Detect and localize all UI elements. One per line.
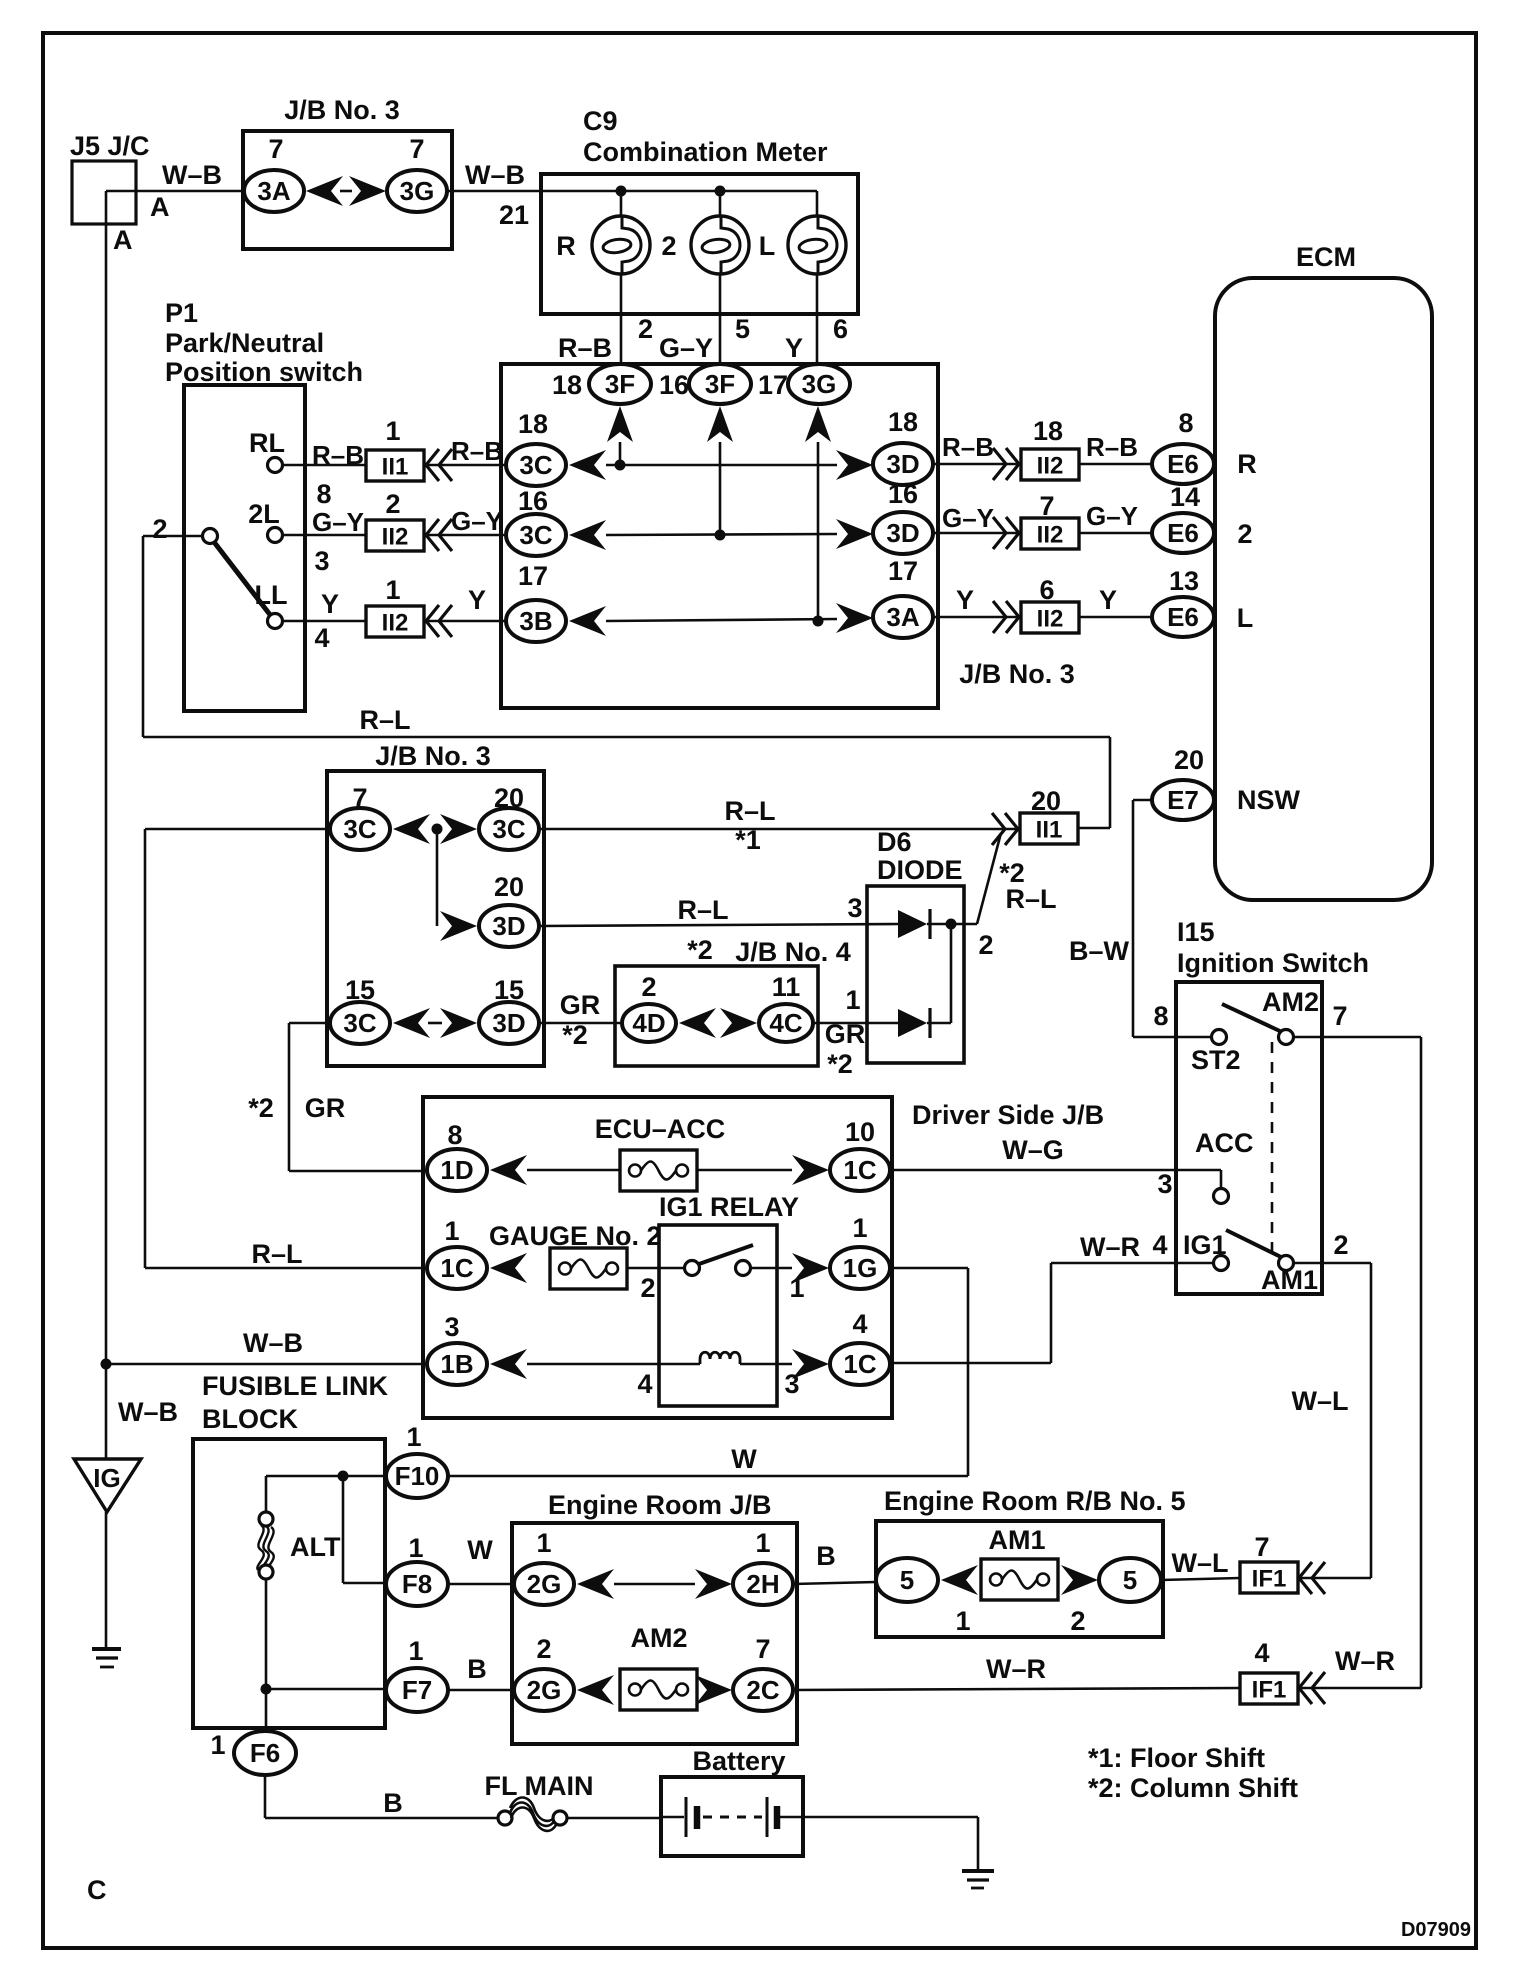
wire R-B to 3C (425, 464, 505, 467)
arrow up to 3G (805, 406, 831, 442)
FL MAIN fusible link wavy (510, 1798, 556, 1831)
connector 3F row 2 (689, 364, 751, 404)
connector II1 R-L (1020, 813, 1078, 844)
svg-text:B: B (467, 1654, 487, 1684)
wire G-Y to 3C (425, 534, 505, 537)
arrow right row1 driver (792, 1155, 829, 1185)
arrow right rowA (440, 814, 477, 844)
svg-text:E6: E6 (1167, 449, 1199, 479)
svg-text:16: 16 (659, 370, 689, 400)
svg-text:10: 10 (845, 1117, 875, 1147)
svg-text:FL MAIN: FL MAIN (485, 1771, 594, 1801)
svg-text:G–Y: G–Y (451, 506, 503, 536)
connector 3G row L (788, 364, 850, 404)
wire W horizontal (447, 1475, 968, 1478)
svg-text:8: 8 (1153, 1001, 1168, 1031)
connector 3F row R (589, 364, 651, 404)
svg-text:LL: LL (255, 580, 288, 610)
IG1 relay box (659, 1225, 777, 1406)
svg-text:7: 7 (755, 1634, 770, 1664)
arrow left row2 driver (490, 1253, 527, 1283)
arrow left rowA (393, 814, 430, 844)
contact AM1 (1279, 1256, 1294, 1271)
svg-text:W: W (731, 1444, 757, 1474)
contact RL (268, 458, 283, 473)
svg-text:1: 1 (845, 985, 860, 1015)
wire 2C to IF1 (793, 1688, 1240, 1690)
connector F7 (386, 1668, 448, 1712)
svg-text:3G: 3G (802, 369, 837, 399)
svg-text:W–B: W–B (162, 160, 222, 190)
contact ACC (1214, 1189, 1229, 1204)
svg-text:W–R: W–R (986, 1654, 1046, 1684)
wire F10 left (266, 1475, 387, 1478)
svg-text:2: 2 (1333, 1230, 1348, 1260)
relay lever (699, 1245, 753, 1264)
svg-text:F6: F6 (250, 1738, 280, 1768)
arrow left RB5 (941, 1565, 978, 1595)
battery cell left plate long (685, 1797, 688, 1837)
svg-text:1: 1 (444, 1216, 459, 1246)
J/B No.3 lower box (327, 771, 544, 1066)
svg-text:C: C (87, 1875, 107, 1905)
svg-text:2C: 2C (746, 1675, 779, 1705)
svg-text:7: 7 (1254, 1532, 1269, 1562)
connector 3C rowA right (479, 808, 539, 850)
arrow left row2 (569, 520, 606, 550)
connector 3D row2 (873, 512, 933, 554)
svg-text:18: 18 (1033, 416, 1063, 446)
svg-text:R–L: R–L (724, 796, 775, 826)
contact common 2 (203, 529, 218, 544)
arrow right row2 driver (792, 1253, 829, 1283)
connector 1C ig (830, 1343, 890, 1385)
wire diode out (951, 923, 977, 926)
wire IF1 row2 to W-R vertical (1298, 1687, 1421, 1690)
wire 3D to II2 row2 (933, 532, 1019, 535)
arrow right row1 engine (695, 1569, 732, 1599)
svg-text:GR: GR (560, 990, 601, 1020)
svg-text:E6: E6 (1167, 518, 1199, 548)
wire W-R to 1C row3 (891, 1362, 1051, 1365)
svg-text:1: 1 (210, 1730, 225, 1760)
svg-text:GR: GR (825, 1019, 866, 1049)
ALT contact bottom (259, 1565, 273, 1579)
svg-text:F8: F8 (402, 1569, 432, 1599)
svg-text:R–L: R–L (677, 895, 728, 925)
chevron IF1 row1 (1299, 1562, 1325, 1594)
connector 1B (427, 1343, 487, 1385)
connector II2 row2 (366, 520, 424, 551)
svg-text:II2: II2 (382, 610, 409, 637)
svg-text:*2: Column Shift: *2: Column Shift (1088, 1773, 1298, 1803)
chevron male row2 (993, 517, 1019, 549)
svg-text:2G: 2G (527, 1675, 562, 1705)
svg-text:AM2: AM2 (630, 1623, 687, 1653)
diode 2 symbol (898, 1009, 927, 1037)
wire fuse to relay (628, 1267, 685, 1270)
svg-text:1: 1 (755, 1528, 770, 1558)
wire fuse to 1C (697, 1169, 792, 1172)
arrow left rowC (393, 1008, 430, 1038)
svg-text:Position switch: Position switch (165, 357, 363, 387)
battery cell wires (661, 1816, 684, 1819)
svg-text:11: 11 (772, 972, 801, 1002)
svg-text:Y: Y (321, 589, 339, 619)
svg-text:W–R: W–R (1080, 1232, 1140, 1262)
svg-text:16: 16 (518, 486, 548, 516)
junction dot row2 (715, 530, 726, 541)
svg-text:3C: 3C (343, 1008, 376, 1038)
svg-text:21: 21 (499, 200, 529, 230)
arrow right row3 driver (792, 1349, 829, 1379)
wire II2 to E6 row1 (1079, 463, 1152, 466)
AM2 lever (1222, 1004, 1282, 1032)
svg-text:Engine Room R/B No. 5: Engine Room R/B No. 5 (884, 1486, 1186, 1516)
svg-text:AM1: AM1 (1261, 1265, 1318, 1295)
svg-text:W–R: W–R (1335, 1646, 1395, 1676)
svg-text:1D: 1D (440, 1155, 473, 1185)
svg-text:1: 1 (852, 1213, 867, 1243)
wire lamp L to pin 6 (816, 274, 819, 365)
relay contact left (685, 1261, 700, 1276)
svg-text:3G: 3G (400, 176, 435, 206)
svg-text:W–L: W–L (1172, 1548, 1229, 1578)
ALT fusible link wavy (257, 1525, 273, 1572)
connector 3C row1 (506, 444, 566, 486)
indicator lamp R (592, 216, 650, 274)
wire Y to 3B (425, 620, 505, 623)
svg-text:3C: 3C (492, 814, 525, 844)
wire R-L to 1C gauge (145, 1267, 426, 1270)
wire W-G from 1C to ACC (891, 1169, 1221, 1172)
connector F10 (386, 1454, 448, 1498)
contact AM2 (1279, 1030, 1294, 1045)
wire to F7 (266, 1688, 386, 1691)
fusible link block box (193, 1439, 385, 1728)
svg-text:W–B: W–B (118, 1397, 178, 1427)
svg-text:Y: Y (468, 585, 486, 615)
svg-text:17: 17 (758, 370, 788, 400)
connector 5 right (1099, 1558, 1161, 1602)
wire AM2 pin7 right (1293, 1036, 1421, 1039)
svg-text:II2: II2 (1037, 606, 1064, 633)
svg-text:4: 4 (852, 1309, 867, 1339)
wire IF1 to W-L vertical (1298, 1577, 1371, 1580)
svg-text:J/B No. 3: J/B No. 3 (375, 741, 491, 771)
wire GR 3D to 4D (539, 1022, 622, 1025)
svg-text:3: 3 (847, 893, 862, 923)
connector 1C gauge (427, 1247, 487, 1289)
wire GR 3C rowC to left (289, 1022, 330, 1025)
wire W-B from 3G to combination meter (447, 190, 817, 193)
svg-text:W: W (467, 1535, 493, 1565)
connector 5 left (876, 1558, 938, 1602)
connector 2C (733, 1669, 793, 1711)
wire drop to lamp L (816, 191, 819, 216)
wire B-W to ST2 (1133, 1036, 1212, 1039)
wire FL MAIN to battery (567, 1817, 661, 1820)
wire 2H to RB5 (793, 1582, 876, 1584)
svg-text:3C: 3C (343, 814, 376, 844)
wire common to left (143, 535, 203, 538)
connector 3G (387, 170, 447, 212)
svg-text:5: 5 (1123, 1565, 1137, 1595)
svg-text:3B: 3B (519, 606, 552, 636)
wire W-R right vertical (1420, 1037, 1423, 1688)
chevron female row1 (426, 449, 452, 481)
connector E6 row R (1152, 444, 1214, 484)
svg-text:E7: E7 (1167, 785, 1199, 815)
svg-text:2: 2 (1070, 1606, 1085, 1636)
svg-text:2: 2 (661, 231, 676, 261)
svg-text:Combination Meter: Combination Meter (583, 137, 828, 167)
junction dot row3 (813, 616, 824, 627)
svg-text:17: 17 (518, 561, 548, 591)
wire diode2 to junction (927, 1022, 951, 1025)
chevron male row3 (993, 601, 1019, 633)
svg-text:8: 8 (316, 479, 331, 509)
svg-text:Engine Room J/B: Engine Room J/B (548, 1490, 772, 1520)
svg-text:P1: P1 (165, 298, 198, 328)
junction dot F7 branch (261, 1684, 272, 1695)
connector II2 row3 (366, 606, 424, 637)
connector 2H (733, 1563, 793, 1605)
wire 1D to fuse (527, 1169, 620, 1172)
chevron male II1 (992, 813, 1018, 845)
Engine Room R/B No.5 box (876, 1521, 1163, 1637)
svg-text:L: L (759, 231, 776, 261)
svg-text:3D: 3D (886, 449, 919, 479)
wire common down (142, 536, 145, 737)
connector 3C rowA left (330, 808, 390, 850)
connector 3A (244, 170, 304, 212)
svg-text:2: 2 (638, 314, 653, 344)
svg-text:Y: Y (956, 585, 974, 615)
arrow left row1 engine (577, 1569, 614, 1599)
connector II2 right row2 (1021, 518, 1079, 549)
svg-text:IF1: IF1 (1252, 1677, 1287, 1704)
svg-text:3C: 3C (519, 520, 552, 550)
svg-text:2L: 2L (248, 499, 280, 529)
arrow right row2 engine (695, 1675, 732, 1705)
wire coil to 1C (740, 1363, 792, 1366)
wire F7 to 2G row2 (448, 1689, 512, 1692)
arrow right 4D-4C (720, 1008, 757, 1038)
svg-text:R–B: R–B (942, 432, 994, 462)
wire IG triangle to ground (105, 1512, 108, 1647)
relay coil (700, 1352, 740, 1364)
dashed link line (1271, 1042, 1274, 1258)
wire ACC stub (1220, 1170, 1223, 1189)
wire relay to 1G (750, 1267, 792, 1270)
chevron IF1 row2 (1299, 1672, 1325, 1704)
wire F6 down (264, 1775, 267, 1818)
contact IG1 (1214, 1256, 1229, 1271)
fuse GAUGE No.2 (550, 1248, 627, 1289)
svg-text:17: 17 (888, 556, 918, 586)
diode 1 symbol (898, 910, 927, 938)
ignition switch box (1176, 982, 1322, 1294)
wire battery to ground (803, 1816, 978, 1819)
connector 4D (622, 1004, 676, 1042)
svg-text:3: 3 (314, 546, 329, 576)
wire row1 engine (614, 1583, 695, 1586)
wire 3A to II2 row3 (933, 616, 1019, 619)
svg-text:Driver Side J/B: Driver Side J/B (912, 1100, 1104, 1130)
svg-text:Y: Y (1099, 585, 1117, 615)
wire ALT to F7 junction (265, 1579, 268, 1731)
svg-text:AM2: AM2 (1262, 987, 1319, 1017)
wire E7 to B-W vertical (1133, 799, 1152, 802)
wire II2 to E6 row2 (1079, 532, 1152, 535)
wire 4C to diode (813, 1022, 898, 1025)
connector 1G (830, 1247, 890, 1289)
diode D6 box (867, 886, 964, 1063)
svg-text:FUSIBLE LINK: FUSIBLE LINK (202, 1371, 388, 1401)
battery box (661, 1777, 803, 1856)
wire W vertical (967, 1268, 970, 1476)
connector 2G row1 (514, 1563, 574, 1605)
svg-text:F7: F7 (402, 1675, 432, 1705)
svg-text:1: 1 (955, 1606, 970, 1636)
svg-text:1B: 1B (440, 1349, 473, 1379)
svg-text:C9: C9 (583, 106, 618, 136)
svg-text:8: 8 (1178, 408, 1193, 438)
svg-text:R–B: R–B (451, 436, 503, 466)
svg-text:*1: Floor Shift: *1: Floor Shift (1088, 1743, 1265, 1773)
svg-text:ALT: ALT (290, 1532, 341, 1562)
connector F6 (234, 1731, 296, 1775)
indicator lamp L (788, 216, 846, 274)
arrow left between 3A-3G (306, 176, 343, 206)
connector E6 row L (1152, 597, 1214, 637)
junction dot W-B branch (101, 1359, 112, 1370)
FL MAIN contact left (498, 1811, 512, 1825)
battery cell left plate short (694, 1806, 701, 1829)
svg-text:3C: 3C (519, 450, 552, 480)
wire diode1 to junction (927, 923, 951, 926)
junction dot lamp 2 feed (715, 186, 726, 197)
junction dot F10 branch (338, 1471, 349, 1482)
svg-text:IG1 RELAY: IG1 RELAY (659, 1192, 799, 1222)
wire lamp 2 to pin 5 (719, 274, 722, 365)
wire row3 across (606, 619, 837, 621)
chevron male row1 (993, 448, 1019, 480)
svg-text:R–L: R–L (359, 705, 410, 735)
arrow right RB5 (1061, 1565, 1098, 1595)
svg-text:14: 14 (1170, 482, 1200, 512)
arrow left row1 driver (490, 1155, 527, 1185)
wire drop to lamp R (620, 191, 623, 216)
wire 3F2 arrow to row2 (719, 442, 722, 535)
wire W-B from J5 to J/B No.3 (106, 190, 243, 193)
junction dot row1 (615, 460, 626, 471)
svg-text:ECM: ECM (1296, 242, 1356, 272)
battery ground symbol (962, 1869, 994, 1873)
svg-text:BLOCK: BLOCK (202, 1404, 298, 1434)
arrow right row3 (836, 603, 873, 633)
battery cell right plate short (774, 1806, 781, 1829)
svg-text:IG: IG (93, 1463, 120, 1493)
svg-text:1C: 1C (843, 1349, 876, 1379)
svg-text:2: 2 (1237, 519, 1252, 549)
svg-text:W–G: W–G (1002, 1135, 1064, 1165)
connector 3D row1 (873, 443, 933, 485)
wire ALT down (265, 1476, 268, 1512)
wire R-L drop to II1 (1109, 737, 1112, 828)
connector 1D (427, 1149, 487, 1191)
wire rowA dot down to rowB (436, 829, 439, 926)
svg-text:Park/Neutral: Park/Neutral (165, 328, 324, 358)
svg-text:RL: RL (249, 428, 285, 458)
svg-text:5: 5 (900, 1565, 914, 1595)
wire 1B to coil (527, 1363, 700, 1366)
svg-text:ECU–ACC: ECU–ACC (595, 1114, 726, 1144)
svg-text:A: A (113, 225, 133, 255)
center junction box J/B No.3 (501, 364, 938, 708)
svg-text:18: 18 (518, 409, 548, 439)
svg-text:R: R (1237, 449, 1257, 479)
svg-text:NSW: NSW (1237, 785, 1301, 815)
svg-text:20: 20 (1174, 745, 1204, 775)
svg-text:1G: 1G (843, 1253, 878, 1283)
indicator lamp 2 (691, 216, 749, 274)
svg-text:6: 6 (833, 314, 848, 344)
junction dot diode out (946, 919, 957, 930)
wire 3G arrow to row3 (817, 442, 820, 621)
svg-text:DIODE: DIODE (877, 855, 963, 885)
connector II2 right row3 (1021, 602, 1079, 633)
junction dot lamp R feed (616, 186, 627, 197)
svg-text:2: 2 (536, 1634, 551, 1664)
Engine Room J/B box (512, 1523, 797, 1744)
svg-text:W–L: W–L (1292, 1386, 1349, 1416)
wire row1 across (606, 464, 837, 467)
connector II2 right row1 (1021, 449, 1079, 480)
svg-text:8: 8 (447, 1120, 462, 1150)
IG ground triangle (74, 1459, 141, 1512)
svg-text:ACC: ACC (1195, 1128, 1254, 1158)
wire RL to II1 (283, 464, 366, 467)
ECM box rounded (1215, 278, 1432, 900)
svg-text:4: 4 (1254, 1638, 1269, 1668)
svg-text:18: 18 (552, 370, 582, 400)
svg-text:2: 2 (385, 489, 400, 519)
battery dashed middle (703, 1816, 762, 1819)
svg-text:II1: II1 (382, 454, 409, 481)
wire GR to 1D (289, 1170, 426, 1173)
wire drop to lamp 2 (719, 191, 722, 216)
svg-text:1: 1 (408, 1533, 423, 1563)
svg-text:J5 J/C: J5 J/C (70, 131, 150, 161)
svg-text:*2: *2 (687, 935, 713, 965)
svg-text:3: 3 (444, 1312, 459, 1342)
wire 3F arrow to row1 (619, 442, 622, 465)
svg-text:L: L (1237, 603, 1254, 633)
svg-text:W–B: W–B (465, 160, 525, 190)
combination meter box (541, 174, 858, 314)
wire W-R down (1050, 1263, 1053, 1363)
svg-text:20: 20 (494, 872, 524, 902)
svg-text:3: 3 (1157, 1169, 1172, 1199)
svg-text:3F: 3F (705, 369, 735, 399)
svg-text:R–L: R–L (251, 1239, 302, 1269)
wire II1 to corner (1078, 827, 1110, 830)
diode junction vertical (950, 924, 953, 1023)
fuse AM2 (620, 1669, 697, 1710)
connector 1C acc (830, 1149, 890, 1191)
